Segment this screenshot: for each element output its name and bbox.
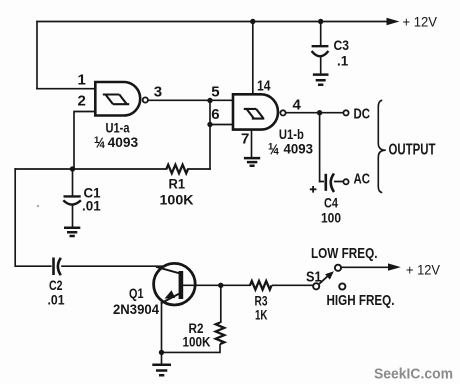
svg-text:1K: 1K (255, 308, 268, 323)
wire C4 leads (320, 181, 343, 183)
svg-text:2N3904: 2N3904 (113, 301, 159, 317)
svg-text:.01: .01 (82, 199, 101, 214)
U1-a 1/4 4093 label (94, 135, 106, 151)
capacitor C3 (312, 46, 329, 56)
node top rail C3 (318, 19, 323, 24)
ground below U1-b pin 7 (244, 158, 260, 166)
wire U1-b pin 14 to rail (252, 22, 254, 95)
node bus pin6 (207, 122, 212, 127)
svg-text:4: 4 (293, 96, 302, 113)
switch S1 pole terminal (313, 283, 319, 289)
svg-text:AC: AC (354, 172, 371, 188)
arrow +12V top (387, 18, 400, 25)
DC output terminal (343, 110, 348, 115)
ground below C3 (313, 75, 329, 85)
svg-text:HIGH FREQ.: HIGH FREQ. (327, 292, 395, 309)
C4 plus sign (310, 186, 317, 193)
svg-text:4: 4 (274, 147, 280, 158)
U1-b 1/4 4093 label (268, 142, 280, 158)
wire output node down to C4 (319, 113, 321, 182)
node C1 R1 (70, 166, 75, 171)
svg-text:C4: C4 (324, 196, 338, 211)
ground below emitter node (152, 365, 171, 376)
svg-text:100K: 100K (183, 334, 211, 349)
wire bus pins 5-6 vertical (209, 100, 211, 169)
node output pin4 (317, 110, 322, 115)
svg-text:4093: 4093 (108, 135, 139, 150)
wire emitter node to ground (161, 352, 163, 363)
wire emitter node to R2 bottom (162, 345, 221, 352)
svg-text:.1: .1 (337, 54, 349, 69)
svg-text:R1: R1 (169, 177, 186, 192)
wire C3 bottom lead (320, 57, 322, 73)
svg-text:14: 14 (257, 78, 271, 95)
switch S1 HIGH contact (339, 283, 345, 289)
svg-text:100: 100 (321, 211, 341, 226)
op-amp U1-a NAND gate body (95, 82, 140, 116)
svg-text:4093: 4093 (284, 142, 314, 157)
wire U1-b pin 4 output (286, 112, 342, 114)
capacitor C2 (54, 258, 61, 276)
node collector (218, 283, 223, 288)
svg-text:C2: C2 (49, 278, 63, 293)
U1-b hysteresis symbol (244, 109, 264, 119)
wire Q1 emitter down (161, 303, 163, 352)
switch S1 arm (319, 274, 330, 284)
wire C1 bottom lead (72, 205, 74, 226)
output brace (378, 100, 386, 192)
switch S1 LOW contact (335, 265, 341, 271)
wire Q1 collector to node (183, 284, 221, 286)
wire collector node to R3 (221, 284, 250, 286)
node emitter ground (159, 350, 164, 355)
svg-text:LOW FREQ.: LOW FREQ. (311, 245, 378, 262)
wire left rail down to C2 (15, 169, 51, 266)
svg-text:R3: R3 (255, 294, 268, 309)
svg-text:.01: .01 (48, 293, 65, 308)
wire top +12V rail (37, 21, 388, 23)
svg-text:Q1: Q1 (129, 286, 144, 301)
node top rail pin14 (250, 19, 255, 24)
wire R2 top lead (219, 285, 222, 322)
resistor R3 (250, 281, 272, 290)
scan speck (37, 205, 39, 207)
wire U1-a pin 3 to pins 5-6 (148, 99, 233, 101)
wire U1-b pin 7 to ground (251, 130, 253, 157)
U1-a hysteresis symbol (103, 95, 129, 105)
svg-text:+ 12V: + 12V (403, 15, 438, 30)
svg-text:+ 12V: + 12V (406, 263, 440, 278)
wire U1-b pin 6 input (210, 124, 233, 126)
svg-text:U1-b: U1-b (279, 127, 304, 142)
wire node row C1 R1 (15, 168, 210, 170)
capacitor C4 (326, 174, 334, 193)
AC output terminal (343, 179, 348, 184)
svg-text:DC: DC (354, 106, 371, 122)
wire C2 to Q1 base (62, 265, 163, 267)
capacitor C1 (63, 196, 81, 204)
node bus pin5 (207, 98, 212, 103)
resistor R2 (216, 323, 225, 345)
transistor Q1 (154, 263, 196, 305)
svg-text:C3: C3 (334, 38, 350, 53)
arrow +12V bottom (388, 263, 401, 270)
Q1 emitter arrowhead (165, 290, 176, 298)
wire C1 top lead (72, 169, 74, 195)
wire feedback left vertical (36, 22, 38, 89)
wire U1-a pin 1 input (37, 88, 95, 90)
svg-text:S1: S1 (306, 268, 322, 285)
svg-text:7: 7 (241, 131, 249, 148)
svg-text:U1-a: U1-a (106, 121, 130, 136)
svg-text:5: 5 (211, 84, 219, 101)
svg-text:4: 4 (100, 140, 106, 151)
op-amp U1-b NAND gate body (233, 94, 278, 129)
ground below C1 (64, 228, 80, 236)
wire C3 top lead (320, 22, 322, 46)
resistor R1 (166, 165, 188, 174)
wire R3 to switch pole (273, 284, 313, 286)
svg-text:1: 1 (78, 72, 86, 89)
svg-text:6: 6 (211, 106, 219, 123)
svg-text:SeekIC.com: SeekIC.com (374, 366, 453, 383)
svg-text:3: 3 (154, 84, 162, 101)
wire U1-a pin 2 input (74, 112, 95, 170)
wire switch to +12V arrow (341, 266, 389, 268)
svg-text:2: 2 (78, 93, 86, 110)
svg-text:100K: 100K (160, 192, 194, 207)
svg-text:OUTPUT: OUTPUT (389, 142, 436, 159)
